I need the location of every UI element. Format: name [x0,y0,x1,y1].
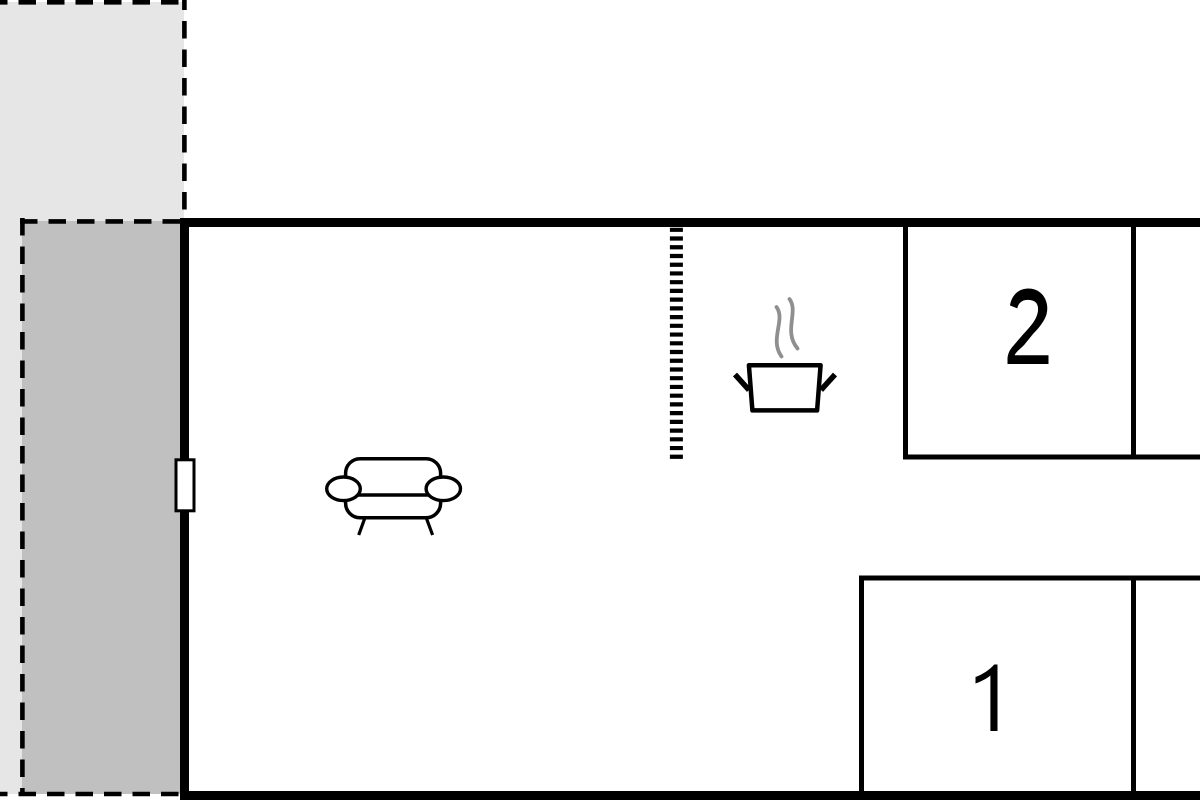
outer wall bottom [180,791,1200,800]
steam wisp right [790,299,798,349]
sofa right leg [427,519,433,535]
partition ladder dashed divider [670,228,683,460]
room 1 label digit 1 [976,665,998,732]
terrace dashed border left (dark area) [20,218,25,796]
room 1 wall right [1131,576,1136,792]
stove pot body [749,365,821,410]
stove pot left handle [735,375,749,391]
terrace area dark gray fill [22,221,180,794]
terrace dashed border top (light area) [0,0,186,5]
room 2 wall bottom [903,455,1200,460]
sofa left leg [359,518,365,535]
outer wall top [180,218,1200,227]
room 1 wall top [860,576,1200,581]
terrace dashed border top (dark area) [20,219,181,224]
sofa right armrest [426,477,460,501]
terrace dashed border right (light area) [182,0,187,218]
room 1 wall left [859,576,864,792]
outer wall left [180,218,189,800]
window marker on left wall [176,460,194,511]
sofa body [346,459,441,518]
stove pot right handle [821,375,835,391]
terrace dashed border bottom [0,792,182,797]
sofa left armrest [327,477,361,501]
terrace area light gray fill [0,2,184,794]
room 2 wall right [1131,227,1136,460]
steam wisp left [777,307,782,357]
room 2 label digit 2 [1008,289,1049,365]
room 2 wall left [903,227,908,460]
sofa seat line [347,493,440,497]
